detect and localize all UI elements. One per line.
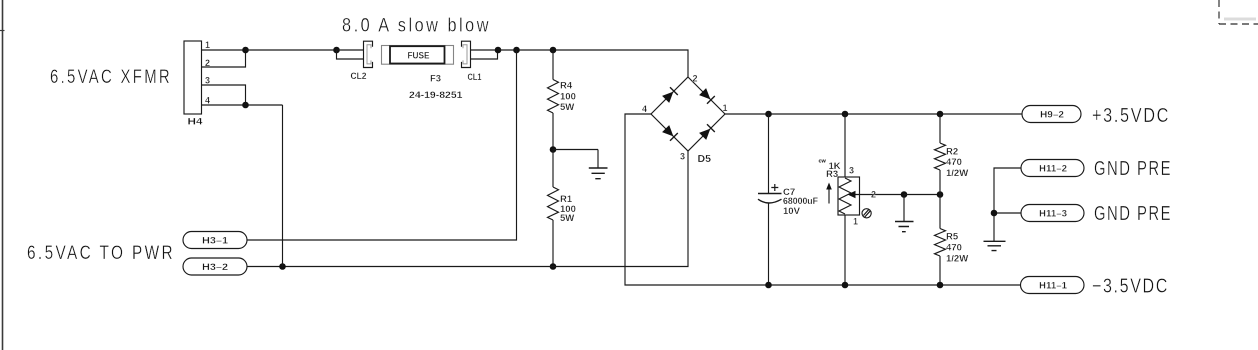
wire H4 pin4 xyxy=(202,104,283,106)
svg-text:4: 4 xyxy=(642,104,647,114)
junction to R4 branch xyxy=(550,47,557,54)
junction R4/R1/ground xyxy=(550,146,557,153)
svg-text:R3: R3 xyxy=(826,169,838,180)
junction R3 bottom xyxy=(842,282,849,289)
svg-text:GND PRE: GND PRE xyxy=(1094,203,1172,225)
resistor R2 xyxy=(935,143,946,170)
wire H4 pin2 up to pin1 xyxy=(202,50,246,67)
capacitor C7 xyxy=(768,114,770,194)
svg-text:1/2W: 1/2W xyxy=(946,254,968,265)
wire H3-2 bottom rail xyxy=(247,151,688,267)
diode arm 4-2 xyxy=(662,92,673,103)
svg-text:6.5VAC XFMR: 6.5VAC XFMR xyxy=(50,66,172,88)
junction wiper/ground xyxy=(901,191,908,198)
wire R5 to minus rail xyxy=(939,256,941,285)
wire rail into R2 xyxy=(939,114,941,143)
dashed zone border corner xyxy=(1219,0,1258,24)
wire stubs from clip CL1 xyxy=(471,50,499,59)
junction after fuse xyxy=(495,47,502,54)
svg-text:2: 2 xyxy=(871,190,876,200)
wire junction to R1 xyxy=(552,150,554,188)
wire wiper to R2/R5 xyxy=(904,194,940,196)
diode arm 2-1 xyxy=(699,88,710,99)
connector H11-1 xyxy=(1021,277,1085,294)
connector H4 xyxy=(184,41,202,114)
junction C7 bottom xyxy=(765,282,772,289)
svg-text:R4: R4 xyxy=(560,81,573,92)
junction R2 top xyxy=(937,111,944,118)
junction R5 bottom xyxy=(937,282,944,289)
svg-text:5W: 5W xyxy=(560,102,574,113)
resistor R4 xyxy=(548,80,559,114)
wire to ground xyxy=(553,150,598,168)
junction C7 top xyxy=(765,111,772,118)
svg-text:cw: cw xyxy=(819,159,827,165)
wire R4 to junction xyxy=(552,113,554,150)
wire H4 pin3 down to pin4 xyxy=(202,85,246,105)
svg-text:−3.5VDC: −3.5VDC xyxy=(1092,276,1169,298)
diode arm 4-3 xyxy=(662,125,673,136)
ground (center tap) xyxy=(589,168,608,179)
wire H11-2 to ground branch xyxy=(994,168,1021,241)
svg-text:H3–1: H3–1 xyxy=(202,236,228,246)
svg-text:6.5VAC TO PWR: 6.5VAC TO PWR xyxy=(27,242,175,264)
svg-text:8.0 A slow blow: 8.0 A slow blow xyxy=(342,15,491,37)
fuse F3 body xyxy=(382,46,454,65)
wire rail into R4 xyxy=(552,50,554,80)
svg-text:+3.5VDC: +3.5VDC xyxy=(1092,105,1170,127)
R3 wiper xyxy=(855,194,904,196)
svg-text:4: 4 xyxy=(205,96,210,106)
svg-text:H9–2: H9–2 xyxy=(1040,110,1064,120)
wire top rail to fuse xyxy=(246,49,337,51)
junction to H3-1 branch xyxy=(513,47,520,54)
connector H11-2 xyxy=(1021,160,1084,177)
wire top rail to bridge xyxy=(498,50,688,77)
resistor R5 xyxy=(935,229,946,257)
sheet left border xyxy=(2,0,4,350)
svg-text:24-19-8251: 24-19-8251 xyxy=(409,90,463,101)
bridge rectifier D5 xyxy=(651,77,725,151)
svg-text:1: 1 xyxy=(723,103,728,113)
svg-text:FUSE: FUSE xyxy=(408,51,430,62)
junction H4 pin4 branch xyxy=(279,263,286,270)
svg-text:1/2W: 1/2W xyxy=(946,168,968,179)
ground (wiper) xyxy=(895,222,914,232)
connector H11-3 xyxy=(1021,205,1084,222)
connector H3-1 xyxy=(183,232,247,249)
R3 adjust screw xyxy=(862,209,871,218)
svg-text:H4: H4 xyxy=(188,117,204,128)
junction pin3/pin4 xyxy=(242,102,249,109)
svg-text:470: 470 xyxy=(946,243,962,254)
svg-text:3: 3 xyxy=(849,166,854,176)
svg-text:GND PRE: GND PRE xyxy=(1094,158,1172,180)
wire R2 to junction to R5 xyxy=(939,170,941,229)
junction R2/R5/wiper xyxy=(937,191,944,198)
junction R1/bottom rail xyxy=(550,263,557,270)
wire bridge node1 plus rail xyxy=(725,113,1022,115)
svg-text:470: 470 xyxy=(946,157,962,168)
svg-text:R2: R2 xyxy=(946,147,958,158)
connector H9-2 xyxy=(1022,106,1081,123)
svg-text:100: 100 xyxy=(560,92,576,103)
svg-text:3: 3 xyxy=(205,76,210,86)
wire H4 pin4 down xyxy=(282,105,284,267)
svg-text:H11–1: H11–1 xyxy=(1039,281,1067,291)
svg-text:5W: 5W xyxy=(560,213,574,224)
svg-text:R5: R5 xyxy=(946,232,959,243)
svg-text:3: 3 xyxy=(680,152,685,162)
ground (pre-regulator) xyxy=(984,241,1006,250)
potentiometer R3 xyxy=(844,114,846,177)
resistor R1 xyxy=(548,187,559,220)
fuse clip CL1 xyxy=(462,41,471,67)
junction ground branch xyxy=(991,210,998,217)
svg-text:H11–3: H11–3 xyxy=(1039,209,1067,219)
junction pin1/pin2 xyxy=(242,47,249,54)
border tick mark xyxy=(0,30,5,32)
svg-text:1: 1 xyxy=(205,40,210,50)
svg-text:1: 1 xyxy=(853,217,858,227)
wire H11-3 stub xyxy=(994,212,1021,214)
svg-text:F3: F3 xyxy=(430,74,441,85)
svg-text:H11–2: H11–2 xyxy=(1039,164,1067,174)
wire H4 pin1 to junction xyxy=(202,49,246,51)
svg-text:CL1: CL1 xyxy=(468,72,483,83)
wire down to H3-1 xyxy=(247,50,517,240)
diode arm 3-1 xyxy=(699,129,710,140)
junction R3 top xyxy=(842,111,849,118)
svg-text:H3–2: H3–2 xyxy=(202,262,228,272)
wire stubs into clip CL2 xyxy=(337,50,364,59)
wire R1 to bottom rail xyxy=(552,220,554,267)
junction at fuse input xyxy=(333,47,340,54)
wire bridge node4 to minus rail xyxy=(625,114,1021,285)
svg-text:2: 2 xyxy=(693,74,698,84)
wire wiper ground stub xyxy=(903,195,905,222)
R3 cw arrow xyxy=(828,187,830,204)
svg-text:10V: 10V xyxy=(783,206,801,217)
connector H3-2 xyxy=(183,258,247,275)
fuse clip CL2 xyxy=(364,41,373,67)
svg-text:D5: D5 xyxy=(698,153,712,165)
svg-text:CL2: CL2 xyxy=(351,71,367,82)
